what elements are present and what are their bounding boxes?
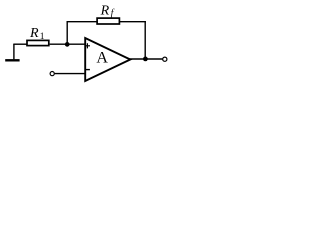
node junction dot at R1 / feedback (65, 42, 70, 47)
svg-text:R: R (29, 26, 39, 41)
wire feedback right vertical (144, 21, 146, 59)
ground (5, 44, 19, 60)
svg-text:A: A (96, 50, 108, 67)
wire feedback top left horizontal (67, 21, 97, 23)
svg-text:1: 1 (40, 32, 45, 42)
wire ground to R1 (13, 43, 26, 45)
wire R1 to noninverting input (50, 43, 86, 45)
resistor Rf (97, 18, 119, 24)
op-amp A (85, 38, 131, 81)
input terminal (50, 72, 54, 76)
wire feedback left vertical (66, 21, 68, 44)
node junction dot at output / feedback (143, 57, 148, 62)
wire feedback top right horizontal (119, 21, 145, 23)
wire op-amp output (130, 58, 163, 60)
wire input terminal to inverting input (55, 73, 86, 75)
output terminal (163, 57, 167, 61)
resistor R1 (27, 40, 49, 45)
svg-text:R: R (100, 4, 110, 19)
